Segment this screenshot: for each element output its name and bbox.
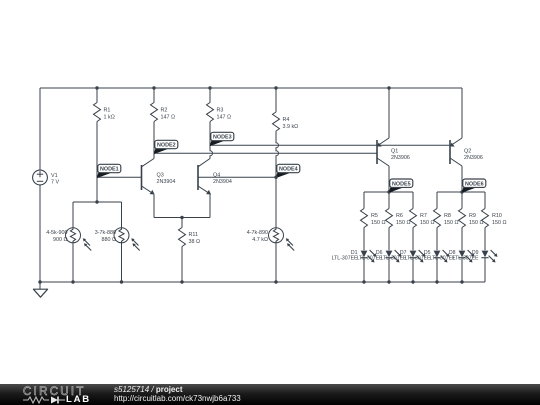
label R4 value (283, 117, 299, 130)
resistor R5 (361, 209, 368, 228)
svg-text:Q3: Q3 (157, 172, 164, 178)
label LDR3 value (247, 230, 268, 243)
svg-text:2N3906: 2N3906 (391, 155, 410, 161)
LED D8 LTL-307EE (458, 250, 474, 263)
label D8 (430, 250, 456, 262)
wire R8 to D5 (436, 228, 438, 251)
transistor Q2 2N3906 (450, 138, 462, 166)
LED D9 LTL-307EE (481, 250, 497, 263)
resistor R8 (434, 209, 441, 228)
svg-text:Q2: Q2 (464, 148, 471, 154)
photoresistor LDR2 3-7k-880 (114, 228, 140, 251)
label Q3 type (157, 172, 176, 185)
svg-text:150 Ω: 150 Ω (371, 220, 386, 226)
junction rail R11 (180, 280, 183, 283)
junction rail R6 branch (387, 280, 390, 283)
wire R1 upper lead (96, 88, 98, 103)
wire LDR2 upper (121, 202, 123, 228)
wire R2 to Q3 collector (153, 122, 155, 159)
transistor Q4 2N3904 (198, 159, 211, 195)
node NODE2 label (154, 140, 178, 154)
label Q1 type (391, 148, 410, 161)
svg-text:R9: R9 (469, 213, 476, 219)
resistor R3 (207, 103, 214, 122)
wire R2 upper lead (153, 88, 155, 103)
label R5 value (371, 213, 386, 226)
LED D1 LTL-307EE (360, 250, 376, 263)
wire LDR1 lower (72, 243, 74, 282)
wire R9 upper lead (461, 192, 463, 209)
svg-text:R3: R3 (217, 108, 224, 114)
junction rail R8 branch (435, 280, 438, 283)
label V1 value (51, 173, 59, 186)
svg-text:3.9 kΩ: 3.9 kΩ (283, 124, 299, 130)
resistor R4 (273, 112, 280, 131)
wire R10 to D9 (484, 228, 486, 251)
wire R4 down with hops (276, 131, 279, 177)
label Q2 type (464, 148, 483, 161)
junction rail LDR1 (71, 280, 74, 283)
label R10 value (492, 213, 507, 226)
junction top rail R3 (208, 86, 211, 89)
resistor R11 (179, 228, 186, 247)
wire D9 lower lead (484, 258, 486, 282)
svg-text:NODE3: NODE3 (213, 135, 232, 141)
wire D8 lower lead (461, 258, 463, 282)
junction NODE5 (387, 190, 390, 193)
CircuitLab logo CIRCUIT (23, 386, 86, 398)
svg-text:NODE1: NODE1 (100, 167, 119, 173)
label D9 (453, 250, 479, 262)
svg-text:R5: R5 (371, 213, 378, 219)
ground symbol (33, 282, 47, 297)
wire NODE4 to LDR3 (275, 177, 277, 228)
svg-text:R11: R11 (189, 232, 199, 238)
transistor Q3 2N3904 (142, 159, 155, 195)
svg-text:2N3906: 2N3906 (464, 155, 483, 161)
svg-text:2N3904: 2N3904 (157, 179, 176, 185)
label D7 (381, 250, 407, 262)
wire R1 to NODE1 to LDR wire (96, 122, 98, 203)
junction rail R7 branch (411, 280, 414, 283)
svg-text:900 Ω: 900 Ω (53, 237, 68, 243)
label R1 value (104, 108, 115, 121)
svg-text:R4: R4 (283, 117, 290, 123)
CircuitLab logo LAB (66, 394, 91, 405)
svg-text:38 Ω: 38 Ω (189, 239, 201, 245)
footer title text (114, 385, 182, 394)
resistor R7 (410, 209, 417, 228)
svg-text:NODE5: NODE5 (392, 181, 411, 187)
label LDR1 value (46, 230, 67, 243)
wire NODE5 bus (364, 191, 413, 193)
wire V1 branch lower (39, 185, 41, 282)
wire Q2 collector (461, 166, 463, 192)
svg-text:V1: V1 (51, 173, 58, 179)
svg-text:R1: R1 (104, 108, 111, 114)
wire top rail right corner down (461, 88, 463, 138)
wire NODE2 to Q1 base (154, 152, 377, 154)
wire R3 to Q4 collector with hop (210, 122, 213, 159)
wire R6 to D6 (388, 228, 390, 251)
wire D1 lower lead (363, 258, 365, 282)
wire Q3 emitter (153, 195, 155, 218)
footer bar (0, 384, 540, 405)
resistor R1 (94, 103, 101, 122)
wire Q4 base to NODE4 (198, 176, 276, 178)
junction top rail R1 (95, 86, 98, 89)
wire R7 upper lead (412, 192, 414, 209)
svg-text:880 Ω: 880 Ω (101, 237, 116, 243)
label R9 value (469, 213, 484, 226)
wire D5 lower lead (436, 258, 438, 282)
wire R5 to D1 (363, 228, 365, 251)
wire Q4 emitter (209, 195, 211, 218)
wire V1 branch upper (39, 88, 41, 170)
svg-text:R7: R7 (420, 213, 427, 219)
CircuitLab logo resistor-diode glyph (23, 395, 67, 405)
wire Q1 collector (388, 166, 390, 192)
svg-text:LTL-307EE: LTL-307EE (381, 256, 407, 262)
svg-text:150 Ω: 150 Ω (492, 220, 507, 226)
wire R4 upper lead (275, 88, 277, 112)
LED D5 LTL-307EE (433, 250, 449, 263)
wire R3 upper lead (209, 88, 211, 103)
svg-text:150 Ω: 150 Ω (396, 220, 411, 226)
photoresistor LDR1 4-5k-900 (66, 228, 92, 251)
junction top rail Q1 (387, 86, 390, 89)
wire NODE6 bus (437, 191, 485, 193)
wire Q3-Q4 emitter bus (154, 217, 210, 219)
wire LDR2 lower (121, 243, 123, 282)
svg-text:R10: R10 (492, 213, 502, 219)
svg-text:147 Ω: 147 Ω (217, 115, 232, 121)
wire NODE1 to Q3 base (97, 176, 142, 178)
junction NODE4 (274, 176, 277, 179)
label R11 value (189, 232, 201, 245)
wire LDR1 upper (72, 202, 74, 228)
svg-text:4-5k-900: 4-5k-900 (46, 230, 67, 236)
svg-text:LTL-307EE: LTL-307EE (405, 256, 431, 262)
wire LDR top bus (73, 201, 122, 203)
resistor R6 (386, 209, 393, 228)
label Q4 type (213, 172, 232, 185)
wire bottom ground rail (40, 281, 485, 283)
label D6 (357, 250, 383, 262)
wire D7 lower lead (412, 258, 414, 282)
svg-text:3-7k-880: 3-7k-880 (95, 230, 116, 236)
svg-text:NODE4: NODE4 (279, 167, 298, 173)
svg-text:150 Ω: 150 Ω (469, 220, 484, 226)
junction rail LDR3 (274, 280, 277, 283)
junction ground rail-V1 (38, 280, 41, 283)
svg-text:4-7k-890: 4-7k-890 (247, 230, 268, 236)
label R6 value (396, 213, 411, 226)
wire R7 to D7 (412, 228, 414, 251)
junction top rail R2 (152, 86, 155, 89)
svg-text:LTL-307EE: LTL-307EE (453, 256, 479, 262)
wire D6 lower lead (388, 258, 390, 282)
junction rail LDR2 (120, 280, 123, 283)
wire R11 upper lead (181, 218, 183, 228)
wire R10 upper lead (484, 192, 486, 209)
label D5 (405, 250, 431, 262)
junction NODE1 LDR tee (95, 200, 98, 203)
wire NODE3 to Q2 base (210, 144, 450, 146)
resistor R10 (482, 209, 489, 228)
footer url text (114, 394, 241, 403)
svg-text:NODE6: NODE6 (465, 181, 484, 187)
junction NODE6 (460, 190, 463, 193)
svg-text:R8: R8 (444, 213, 451, 219)
wire R11 lower lead (181, 247, 183, 283)
junction rail R9 branch (460, 280, 463, 283)
node NODE5 label (389, 179, 413, 193)
wire Q1 emitter from rail (388, 88, 390, 138)
svg-text:Q1: Q1 (391, 148, 398, 154)
label R3 value (217, 108, 232, 121)
svg-text:150 Ω: 150 Ω (420, 220, 435, 226)
node NODE1 label (97, 164, 121, 178)
wire R5 upper lead (363, 192, 365, 209)
junction top rail R4 (274, 86, 277, 89)
label R7 value (420, 213, 435, 226)
svg-text:LTL-307EE: LTL-307EE (332, 256, 358, 262)
node NODE4 label (276, 164, 300, 178)
label R2 value (161, 108, 176, 121)
LED D6 LTL-307EE (385, 250, 401, 263)
transistor Q1 2N3906 (377, 138, 389, 166)
svg-text:1 kΩ: 1 kΩ (104, 115, 115, 121)
svg-text:R2: R2 (161, 108, 168, 114)
wire top power rail (40, 87, 462, 89)
svg-text:R6: R6 (396, 213, 403, 219)
wire R8 upper lead (436, 192, 438, 209)
label LDR2 value (95, 230, 116, 243)
LED D7 LTL-307EE (409, 250, 425, 263)
svg-text:7 V: 7 V (51, 180, 59, 186)
node NODE6 label (462, 179, 486, 193)
resistor R9 (459, 209, 466, 228)
wire LDR3 lower (275, 243, 277, 282)
svg-text:150 Ω: 150 Ω (444, 220, 459, 226)
wire R9 to D8 (461, 228, 463, 251)
svg-text:4.7 kΩ: 4.7 kΩ (252, 237, 268, 243)
resistor R2 (151, 103, 158, 122)
svg-text:NODE2: NODE2 (157, 143, 176, 149)
junction emitter bus R11 (180, 216, 183, 219)
label R8 value (444, 213, 459, 226)
svg-text:2N3904: 2N3904 (213, 179, 232, 185)
node NODE3 label (210, 132, 234, 146)
wire R6 upper lead (388, 192, 390, 209)
photoresistor LDR3 4-7k-890 (269, 228, 295, 251)
svg-text:147 Ω: 147 Ω (161, 115, 176, 121)
junction rail R5 branch (362, 280, 365, 283)
label D1 (332, 250, 358, 262)
svg-text:LTL-307EE: LTL-307EE (357, 256, 383, 262)
voltage source V1 (33, 170, 48, 185)
